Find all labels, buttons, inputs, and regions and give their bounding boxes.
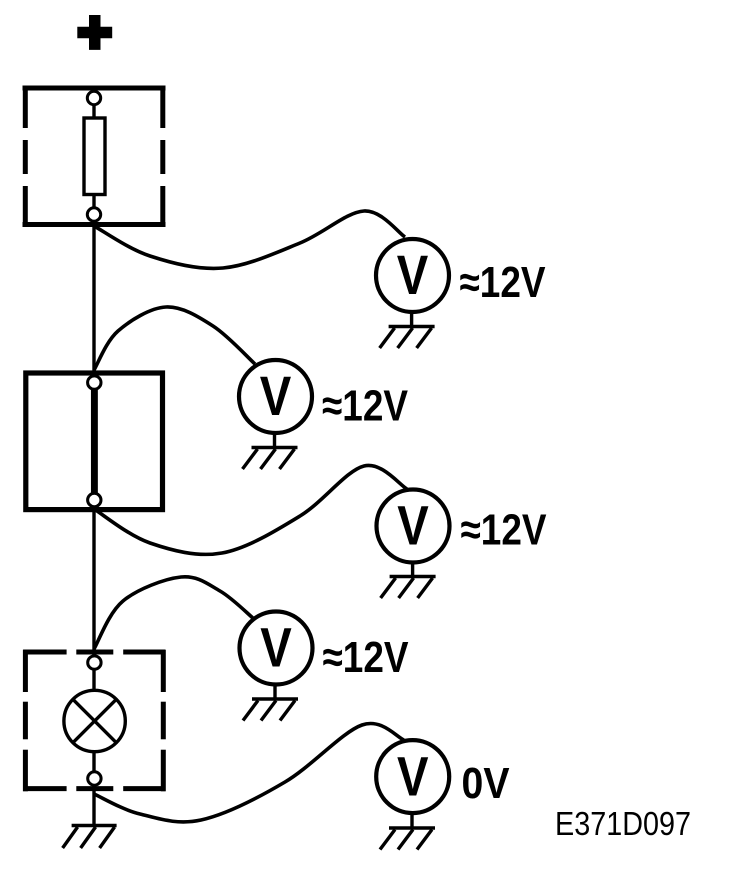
terminal pin top of lamp box	[88, 656, 101, 669]
wire main vertical segment 2	[92, 506, 95, 656]
svg-text:0V: 0V	[462, 759, 511, 808]
voltmeter V2	[239, 360, 312, 433]
ground symbol under V5	[380, 813, 435, 850]
terminal pin bottom of fuse box	[87, 208, 100, 221]
switch box S1 (solid box)	[26, 373, 163, 510]
ground symbol under V2	[243, 433, 298, 469]
voltmeter V4	[240, 612, 313, 685]
terminal pin bottom of lamp box	[88, 772, 101, 785]
wire main vertical segment 3 (to ground)	[92, 784, 95, 826]
wire curve to voltmeter V4	[94, 577, 254, 649]
svg-text:V: V	[260, 364, 292, 427]
ground symbol under V1	[380, 312, 435, 348]
fuse box F1 (dashed component box)	[23, 86, 166, 227]
ground symbol under V4	[243, 685, 298, 721]
wire resistor to terminal	[92, 194, 95, 209]
ground symbol under lamp box	[63, 826, 117, 849]
resistor (fuse element)	[84, 118, 105, 195]
terminal pin top of switch box	[88, 376, 101, 389]
switch contact (closed, thick line)	[91, 389, 98, 493]
ground symbol under V3	[381, 563, 436, 599]
svg-text:V: V	[397, 744, 429, 807]
wire curve to voltmeter V1	[94, 211, 405, 268]
terminal pin bottom of switch box	[88, 493, 101, 506]
svg-text:V: V	[260, 616, 292, 679]
voltmeter V1	[376, 239, 449, 312]
svg-text:≈12V: ≈12V	[460, 258, 547, 307]
voltmeter V5	[376, 740, 449, 813]
plus terminal +	[77, 15, 112, 50]
svg-text:≈12V: ≈12V	[323, 633, 410, 682]
lamp box E1 (dashed component box)	[23, 650, 165, 792]
svg-text:≈12V: ≈12V	[322, 381, 409, 430]
wire curve to voltmeter V2	[94, 307, 255, 370]
wire terminal to lamp	[92, 668, 95, 691]
svg-text:V: V	[397, 243, 429, 306]
wire terminal to resistor	[92, 104, 95, 118]
svg-text:V: V	[397, 494, 429, 557]
wire main vertical segment 1	[92, 218, 95, 376]
svg-text:≈12V: ≈12V	[461, 506, 548, 555]
voltmeter V3	[377, 490, 450, 563]
wire lamp to terminal	[92, 751, 95, 773]
lamp (circle with X)	[64, 690, 125, 751]
lamp X stroke 1	[73, 699, 116, 742]
wire curve to voltmeter V3	[94, 465, 407, 554]
svg-text:E371D097: E371D097	[555, 805, 691, 842]
terminal pin top of fuse box	[87, 91, 100, 104]
wire curve to voltmeter V5	[94, 723, 404, 821]
lamp X stroke 2	[73, 699, 116, 742]
